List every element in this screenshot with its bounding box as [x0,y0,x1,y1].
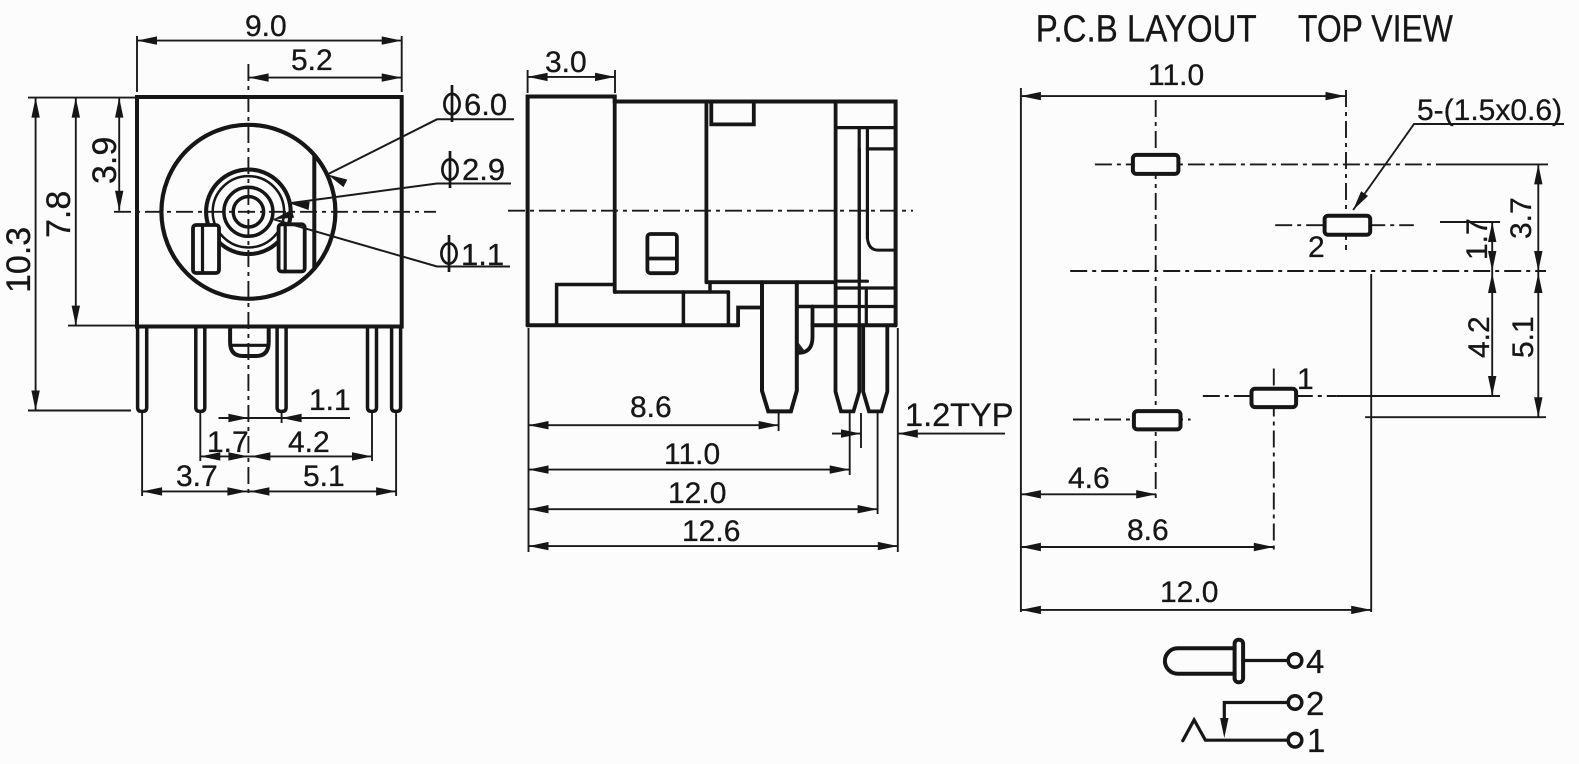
row pad2 [1275,224,1414,226]
terminal 1 circle [1288,733,1302,747]
svg-text:1.7: 1.7 [1461,218,1494,260]
stem to terminal 4 [1243,659,1288,662]
svg-text:1.7: 1.7 [207,426,249,459]
row padTL [1095,163,1445,165]
svg-text:5.2: 5.2 [291,44,333,77]
ext 1.2 left [860,413,862,448]
svg-text:4.2: 4.2 [288,426,330,459]
ring inner [213,176,284,247]
left contact tab [193,225,219,273]
1.7 inside arrows [200,452,220,460]
chord flat inside barrel [312,156,316,269]
ext lines top [136,36,138,92]
dim 1.7/4.2 line [1491,222,1493,396]
pad bottom-left [1134,411,1181,429]
phi symbol 2.9 [442,159,457,179]
main horiz centerline [1070,270,1546,272]
vert centerline pad2 [1345,90,1347,250]
switch arrow [1220,718,1228,738]
dim 12.6 line [529,545,898,547]
svg-text:8.6: 8.6 [1127,514,1169,547]
left ext line [528,328,530,552]
dim 8.6 line [529,424,779,426]
terminal 4 circle [1288,654,1302,668]
barrel circle phi6.0 [161,125,335,299]
wire terminal 1 with spring [1183,720,1288,741]
svg-text:P.C.B LAYOUT: P.C.B LAYOUT [1036,9,1257,51]
dim 3.0 line [528,76,615,78]
vert centerline pad1 [1273,369,1275,551]
left foot step [557,285,614,326]
5.1 inside arrows [249,487,269,495]
front view dimensions [28,36,402,496]
front view dimension arrowheads [31,36,401,495]
plug ferrule [1235,640,1244,682]
ext lines 3.0 [527,70,529,93]
svg-text:4.6: 4.6 [1068,462,1110,495]
phi symbol 1.1 [441,243,456,263]
svg-text:4.2: 4.2 [1463,316,1496,358]
ext lines left [28,97,137,99]
step right of center pin [797,305,836,309]
dim 3.7/5.1 line [1537,164,1539,417]
leader phi1.1 [274,219,510,266]
1.1 outside arrows [228,414,248,422]
svg-text:11.0: 11.0 [664,438,720,471]
leader phi6.0 [328,119,515,174]
window detail [647,234,677,273]
svg-text:12.0: 12.0 [1160,576,1218,609]
svg-text:1.1: 1.1 [309,384,351,417]
step left of center pin [738,308,762,326]
terminal 2 circle [1288,696,1302,710]
dim 1.1 line [219,417,351,419]
front view dimension texts [0,10,351,493]
inner wall x706 [705,102,709,283]
svg-text:2: 2 [1308,231,1325,264]
svg-text:7.8: 7.8 [40,191,78,238]
dim 8.6 line [1021,546,1274,548]
dim 4.6 line [1021,493,1156,495]
pin 1 front [138,327,147,412]
wire terminal 2 [1224,703,1288,730]
dim 12.0 line [1021,609,1371,611]
row pad1 [1203,395,1337,397]
svg-text:1.2TYP: 1.2TYP [905,397,1013,433]
dim 1.7 / 4.2 line [200,455,372,457]
dim 9.0 line [137,40,402,42]
svg-text:3.0: 3.0 [545,46,587,79]
dim 10.3 line [35,98,37,411]
dim 7.8 line [75,98,77,326]
svg-text:TOP VIEW: TOP VIEW [1298,9,1453,51]
pads [1133,155,1370,430]
contact curve [867,238,895,250]
svg-text:1: 1 [1297,363,1314,396]
pin 5 front [392,327,401,412]
ext 11.0 [849,413,851,475]
svg-text:5.1: 5.1 [303,460,345,493]
inner wall x835 [834,102,838,326]
svg-text:1: 1 [1307,722,1325,759]
pin 2 front [196,327,205,412]
pin extension drop lines [141,413,143,496]
pad 2 [1325,216,1371,235]
svg-text:5-(1.5x0.6): 5-(1.5x0.6) [1417,94,1562,127]
side body outline [528,97,896,326]
dim 12.0 line [529,508,878,510]
vert centerline left pads [1155,100,1157,499]
inner wall x614 [613,97,617,293]
dim 11.0 line [1021,95,1346,97]
row padBL [1073,419,1191,421]
dim 1.2 arrows lines [832,433,861,435]
module bottom line [615,290,729,294]
top notch [711,102,754,125]
svg-text:11.0: 11.0 [1148,59,1204,92]
svg-text:5.1: 5.1 [1507,316,1540,358]
dim 3.9 line [118,98,120,211]
svg-text:12.6: 12.6 [682,515,740,548]
vertical centerline [247,64,249,497]
svg-text:4: 4 [1306,643,1324,680]
side pin R2 [863,325,887,411]
pad top-left [1133,155,1179,174]
side pin R1 [836,325,860,411]
plug bullet [1165,648,1235,673]
3.7 inside arrows [142,487,162,495]
dim 5.2 line [249,77,402,79]
svg-text:6.0: 6.0 [464,87,507,122]
svg-text:2: 2 [1306,685,1324,722]
base line left [528,323,739,327]
right ext line [897,328,899,552]
ring phi2.9 outer [206,170,291,255]
phi labels with leaders [274,119,514,266]
base line right [813,323,896,327]
pcb centerlines [1070,90,1546,550]
front view centerlines [114,64,436,497]
pad 1 [1252,389,1297,407]
side view dimensions [528,70,1005,552]
svg-text:3.7: 3.7 [1505,197,1538,239]
svg-text:10.3: 10.3 [0,227,38,293]
svg-text:1.1: 1.1 [461,237,504,272]
svg-text:3.7: 3.7 [176,460,218,493]
svg-text:2.9: 2.9 [462,152,505,187]
pin 4 front [368,327,377,412]
horizontal centerline [114,211,436,213]
leader 5-(1.5x0.6) [1353,124,1564,210]
ext 12.0 [877,413,879,514]
right ext rows [1440,221,1500,223]
svg-text:12.0: 12.0 [668,477,726,510]
svg-text:8.6: 8.6 [630,391,672,424]
right section details [838,126,896,129]
center pin side [762,282,797,411]
svg-text:3.9: 3.9 [86,137,124,184]
leader phi2.9 [289,184,511,204]
front body outline [137,97,402,327]
phi symbol 6.0 [444,94,459,114]
middle circle [224,187,273,236]
retention bump [797,307,813,353]
ext 8.6 [778,413,780,431]
pcb dimensions [1021,88,1564,612]
svg-text:9.0: 9.0 [245,10,287,43]
4.2 inside arrows [250,452,270,460]
ext 12.0 vertical [1370,274,1372,612]
center pin circle phi1.1 [233,197,263,227]
left ext line [1020,88,1022,612]
dim 11.0 line [529,469,850,471]
dim 3.7 / 5.1 line [142,490,396,492]
right contact tab [279,224,305,271]
pin 3 front [277,327,286,412]
side view centerline [508,210,913,212]
pin shelf line [706,280,833,284]
center lug bottom [230,327,269,357]
